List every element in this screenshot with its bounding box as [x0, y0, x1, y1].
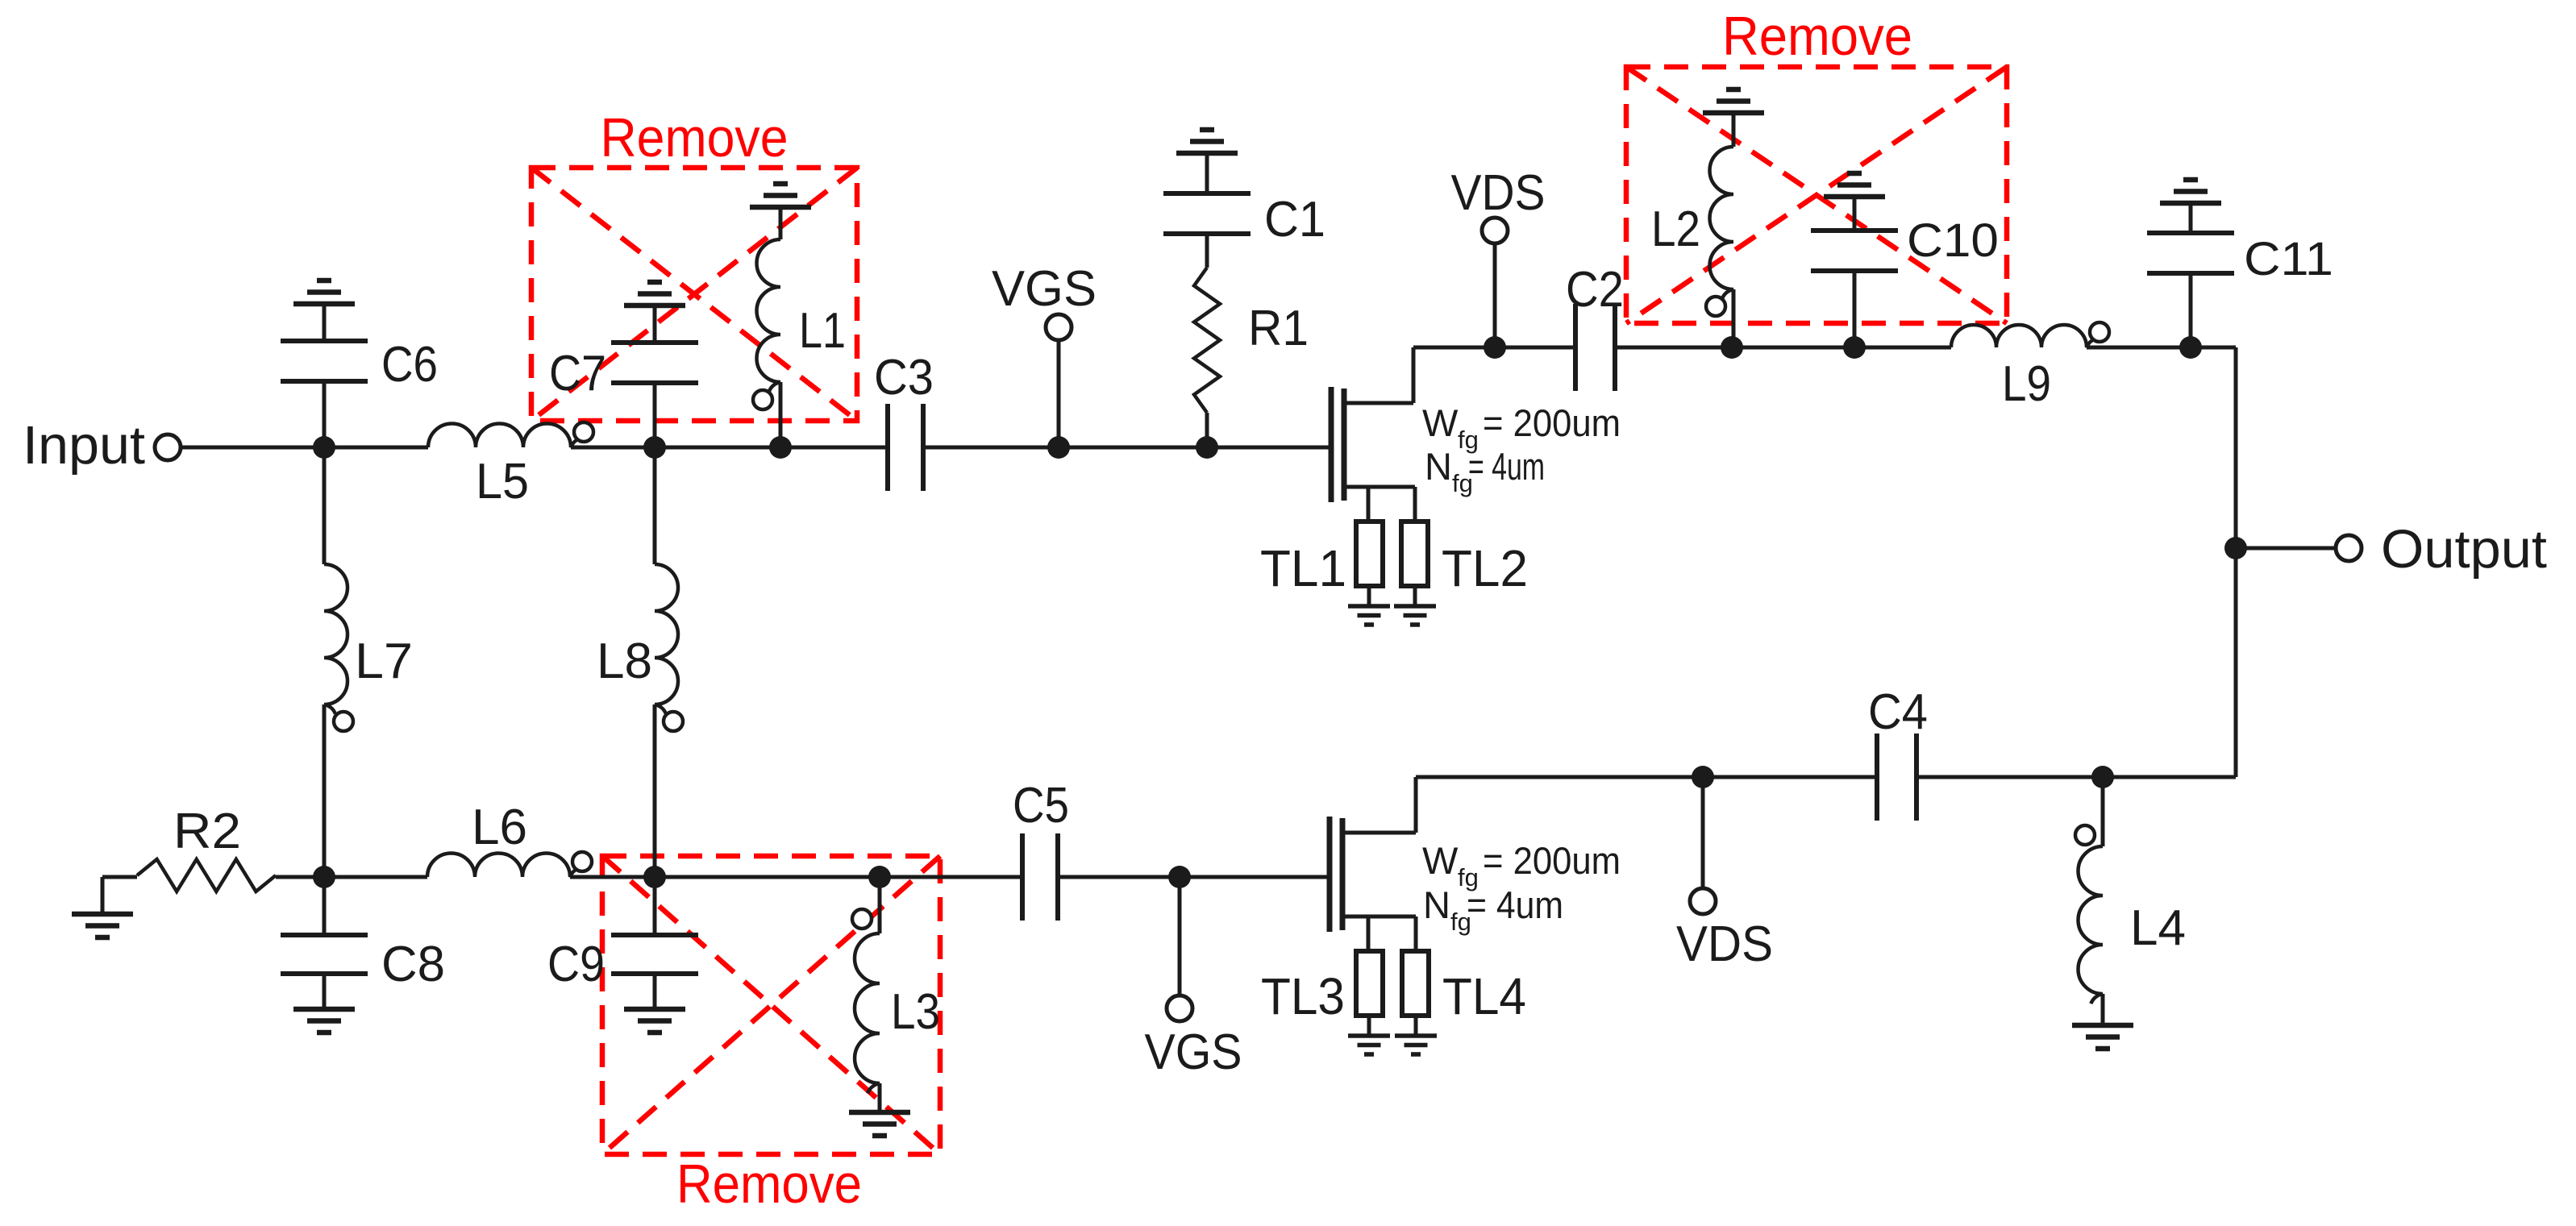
svg-text:N: N	[1423, 883, 1450, 926]
transistor Q1	[1331, 347, 1415, 502]
node A junction	[313, 436, 335, 459]
capacitor C1	[1163, 156, 1251, 268]
node G junction	[2091, 766, 2114, 788]
label L6	[472, 800, 527, 855]
svg-text:VGS: VGS	[1145, 1024, 1242, 1080]
label Remove (box 2)	[1722, 6, 1912, 67]
capacitor C8	[281, 877, 368, 1009]
svg-text:TL2: TL2	[1442, 539, 1528, 597]
label C6	[381, 337, 438, 393]
svg-text:C6: C6	[381, 337, 438, 393]
resistor R1	[1194, 268, 1220, 447]
label VGS (stage 2)	[1145, 1024, 1242, 1080]
ground below TL3	[1348, 1036, 1390, 1054]
svg-text:L7: L7	[355, 634, 413, 689]
wire C4 to node G	[1916, 775, 2103, 779]
svg-text:TL3: TL3	[1261, 967, 1345, 1025]
ground below TL4	[1395, 1036, 1437, 1054]
label R2	[173, 804, 241, 859]
resistor R2	[102, 859, 324, 891]
output terminal	[2336, 535, 2362, 561]
node I junction	[643, 866, 666, 888]
wire R2 to ground	[101, 877, 105, 914]
dashed remove box 1 (around C7, L1)	[531, 168, 857, 421]
stub wire to TL4	[1414, 916, 1418, 951]
svg-text:L1: L1	[799, 303, 846, 359]
svg-text:C11: C11	[2244, 233, 2333, 285]
label L8	[597, 634, 652, 689]
wire output node down	[2234, 548, 2238, 777]
label R1	[1248, 301, 1309, 356]
node F junction	[2179, 336, 2202, 359]
svg-text:TL4: TL4	[1442, 967, 1526, 1025]
svg-text:VDS: VDS	[1451, 165, 1546, 221]
svg-text:C4: C4	[1868, 684, 1928, 740]
svg-text:L3: L3	[891, 984, 940, 1040]
svg-text:L5: L5	[476, 454, 529, 509]
transmission line TL2	[1401, 522, 1428, 586]
wire L5 to node B	[571, 446, 655, 450]
capacitor C11	[2147, 206, 2234, 347]
label C8	[381, 937, 445, 992]
wire C to C3	[780, 446, 886, 450]
svg-text:Remove: Remove	[601, 107, 789, 168]
label TL1	[1260, 539, 1346, 597]
label L2	[1651, 202, 1700, 257]
wire TL3 to ground	[1367, 1016, 1371, 1036]
label C2	[1566, 262, 1624, 318]
label C4	[1868, 684, 1928, 740]
VGS terminal 2	[1167, 995, 1192, 1021]
wire input to node A	[181, 446, 324, 450]
capacitor C6	[281, 306, 368, 447]
label Nfg Q1	[1425, 445, 1545, 497]
ground below R2	[72, 914, 133, 937]
svg-text:C2: C2	[1566, 262, 1624, 318]
label Remove (box 1)	[601, 107, 789, 168]
label Wfg Q2	[1422, 839, 1621, 891]
svg-text:C1: C1	[1264, 192, 1325, 247]
label TL2	[1442, 539, 1528, 597]
svg-text:L4: L4	[2130, 900, 2186, 956]
wire to VDS2 terminal	[1701, 777, 1705, 889]
transistor Q2	[1330, 777, 1416, 932]
label L9	[2002, 356, 2051, 412]
wire F to corner	[2191, 346, 2236, 350]
ground above C7	[624, 282, 685, 305]
transmission line TL3	[1356, 951, 1383, 1016]
wire to VGS2 terminal	[1178, 877, 1182, 996]
stub wire to TL3	[1367, 916, 1371, 951]
inductor L1	[753, 210, 780, 447]
transmission line TL4	[1402, 951, 1429, 1016]
label Nfg Q2	[1423, 883, 1563, 936]
svg-text:= 4um: = 4um	[1468, 445, 1545, 488]
wire C5 to gate of Q2	[1058, 875, 1327, 879]
label C1	[1264, 192, 1325, 247]
wire lower bus to corner	[2103, 775, 2236, 779]
node VGS1 junction	[1047, 436, 1070, 459]
wire E to L9	[1854, 346, 1951, 350]
label Input	[23, 415, 145, 476]
inductor L4	[2075, 777, 2103, 1025]
wire J to C5	[880, 875, 1021, 879]
ground below TL1	[1348, 606, 1390, 625]
stub wire to TL1	[1367, 487, 1371, 522]
wire corner down to output node	[2234, 347, 2238, 548]
capacitor C7	[611, 308, 698, 447]
label L3	[891, 984, 940, 1040]
VGS terminal 1	[1046, 314, 1072, 340]
input terminal	[155, 434, 181, 460]
stub wire to TL2	[1413, 487, 1417, 522]
wire A to L5	[324, 446, 428, 450]
node K junction	[1168, 866, 1191, 888]
svg-text:C7: C7	[549, 346, 606, 401]
wire C2 to node D	[1615, 346, 1732, 350]
inductor L6	[427, 852, 592, 877]
svg-text:W: W	[1422, 839, 1459, 882]
wire H to L6	[324, 875, 427, 879]
label L7	[355, 634, 413, 689]
wire Q2 drain to C4	[1416, 775, 1875, 779]
capacitor C4	[1877, 734, 1916, 821]
svg-text:TL1: TL1	[1260, 539, 1346, 597]
svg-text:L2: L2	[1651, 202, 1700, 257]
svg-text:= 4um: = 4um	[1467, 883, 1563, 926]
wire to VGS1 terminal	[1057, 339, 1061, 447]
wire TL1 to ground	[1367, 586, 1371, 606]
label L5	[476, 454, 529, 509]
label C7	[549, 346, 606, 401]
inductor L3	[852, 877, 880, 1112]
output node junction	[2224, 537, 2247, 559]
inductor L8	[655, 447, 683, 877]
label VDS (stage 1)	[1451, 165, 1546, 221]
svg-text:L8: L8	[597, 634, 652, 689]
ground below L4	[2072, 1025, 2133, 1049]
node VDS2 junction	[1692, 766, 1714, 788]
svg-text:C5: C5	[1013, 778, 1069, 833]
transmission line TL1	[1356, 522, 1383, 586]
svg-text:Remove: Remove	[676, 1153, 862, 1215]
dashed remove box 3 (around C9, L3)	[602, 856, 940, 1154]
svg-text:= 200um: = 200um	[1483, 839, 1621, 882]
svg-text:C9: C9	[547, 937, 605, 992]
svg-text:Output: Output	[2381, 519, 2547, 580]
wire B to node C	[655, 446, 780, 450]
svg-text:VDS: VDS	[1676, 916, 1773, 972]
label VGS (stage 1)	[992, 261, 1097, 317]
node C junction	[769, 436, 792, 459]
svg-text:Input: Input	[23, 415, 145, 476]
wire D to node E	[1732, 346, 1854, 350]
node J junction	[868, 866, 891, 888]
label C3	[874, 350, 934, 405]
ground above C10	[1824, 173, 1885, 197]
label VDS (stage 2)	[1676, 916, 1773, 972]
ground below C9	[624, 1009, 685, 1033]
node R1 junction	[1196, 436, 1218, 459]
label Output	[2381, 519, 2547, 580]
wire Q1 drain to C2	[1413, 346, 1574, 350]
node H junction	[313, 866, 335, 888]
label L1	[799, 303, 846, 359]
label TL4	[1442, 967, 1526, 1025]
wire to VDS1 terminal	[1493, 243, 1497, 347]
VDS terminal 1	[1482, 218, 1508, 243]
wire I to node J	[655, 875, 880, 879]
VDS terminal 2	[1690, 888, 1716, 914]
node VDS1 junction	[1484, 336, 1506, 359]
svg-text:C8: C8	[381, 937, 445, 992]
ground above L1	[750, 184, 811, 207]
ground above C11	[2160, 180, 2221, 203]
label TL3	[1261, 967, 1345, 1025]
svg-text:W: W	[1422, 401, 1459, 444]
label Remove (box 3)	[676, 1153, 862, 1215]
wire TL4 to ground	[1414, 1016, 1418, 1036]
capacitor C3	[888, 404, 923, 491]
svg-text:L9: L9	[2002, 356, 2051, 412]
capacitor C5	[1022, 833, 1058, 921]
label L4	[2130, 900, 2186, 956]
wire L6 to node I	[570, 875, 655, 879]
label Wfg Q1	[1422, 401, 1621, 454]
ground above C6	[293, 281, 355, 304]
node E junction	[1843, 336, 1866, 359]
wire C3 to gate of Q1	[923, 446, 1329, 450]
svg-text:L6: L6	[472, 800, 527, 855]
inductor L5	[428, 422, 593, 447]
label C9	[547, 937, 605, 992]
inductor L2	[1706, 115, 1733, 347]
label C5	[1013, 778, 1069, 833]
dashed remove box 2 (around L2, C10)	[1626, 67, 2007, 323]
svg-text:Remove: Remove	[1722, 6, 1912, 67]
svg-text:N: N	[1425, 445, 1452, 488]
svg-text:R2: R2	[173, 804, 241, 859]
svg-text:= 200um: = 200um	[1483, 401, 1621, 444]
wire TL2 to ground	[1413, 586, 1417, 606]
svg-text:VGS: VGS	[992, 261, 1097, 317]
ground above L2	[1703, 89, 1764, 113]
inductor L7	[324, 447, 353, 877]
wire L9 to node F	[2087, 346, 2191, 350]
ground above C1	[1176, 130, 1238, 153]
svg-text:C3: C3	[874, 350, 934, 405]
svg-text:C10: C10	[1907, 214, 1999, 267]
svg-text:R1: R1	[1248, 301, 1309, 356]
inductor L9	[1951, 322, 2109, 347]
ground below C8	[293, 1009, 355, 1033]
wire to output terminal	[2236, 547, 2336, 551]
ground below TL2	[1394, 606, 1436, 625]
node D junction	[1721, 336, 1743, 359]
label C10	[1907, 214, 1999, 267]
capacitor C10	[1811, 199, 1898, 347]
capacitor C2	[1575, 304, 1615, 391]
label C11	[2244, 233, 2333, 285]
node B junction	[643, 436, 666, 459]
capacitor C9	[611, 877, 698, 1009]
ground below L3	[849, 1112, 910, 1136]
